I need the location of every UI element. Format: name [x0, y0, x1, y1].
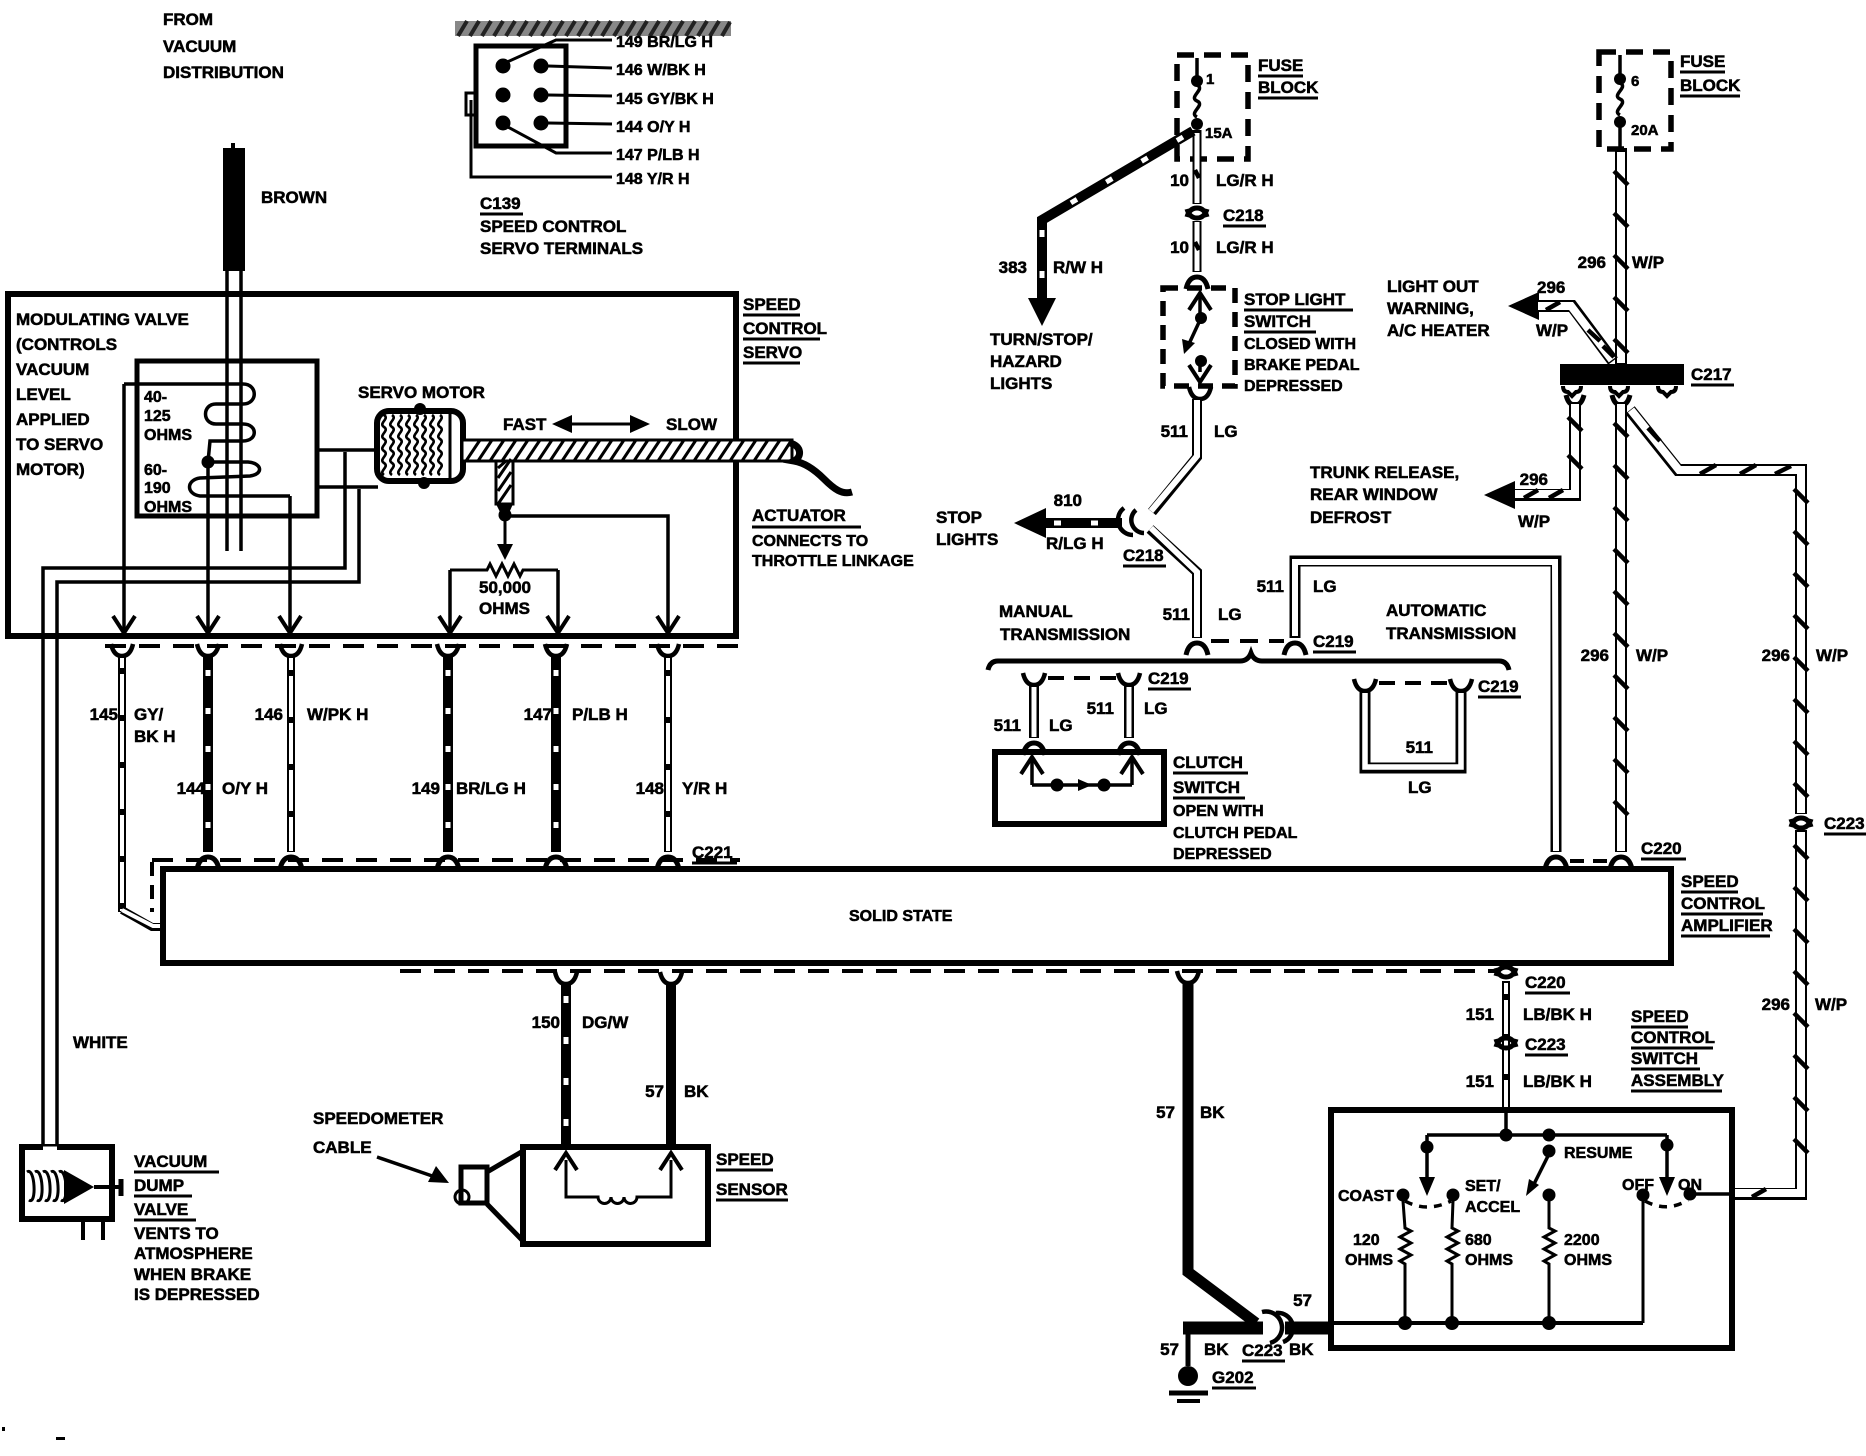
wire 511 LG (switch to C218)	[1151, 387, 1211, 512]
svg-text:SPEED: SPEED	[716, 1150, 774, 1169]
svg-text:R/W H: R/W H	[1053, 258, 1103, 277]
contact SET/ACCEL	[1447, 1189, 1460, 1202]
wire 296 W/P branch arrow (light out warning)	[1508, 292, 1614, 361]
svg-text:LG: LG	[1214, 422, 1238, 441]
switch assembly internal feed	[1427, 1110, 1667, 1142]
connector C139 hatched mounting bar	[455, 21, 731, 36]
svg-text:LG: LG	[1049, 716, 1073, 735]
svg-text:BK: BK	[1289, 1340, 1314, 1359]
svg-text:57: 57	[1160, 1340, 1179, 1359]
svg-text:296: 296	[1762, 995, 1790, 1014]
svg-text:LEVEL: LEVEL	[16, 385, 71, 404]
svg-text:LG: LG	[1313, 577, 1337, 596]
wire 146 W/PK H	[280, 644, 302, 869]
svg-text:296: 296	[1578, 253, 1606, 272]
svg-text:149: 149	[412, 779, 440, 798]
note: VENTS TO ATMOSPHERE WHEN BRAKE IS DEPRESSED	[134, 1224, 260, 1304]
svg-text:DISTRIBUTION: DISTRIBUTION	[163, 63, 284, 82]
svg-text:BK: BK	[1200, 1103, 1225, 1122]
svg-text:57: 57	[645, 1082, 664, 1101]
coast/set blade arm	[1419, 1135, 1435, 1196]
wire 57 BK (sensor)	[660, 972, 682, 1148]
wire 57 BK bus to C223	[1183, 1322, 1333, 1335]
svg-text:SERVO TERMINALS: SERVO TERMINALS	[480, 239, 643, 258]
svg-text:GY/: GY/	[134, 705, 164, 724]
svg-text:O/Y H: O/Y H	[222, 779, 268, 798]
actuator rod (hatched bar)	[462, 440, 792, 461]
arrow into C221 (wire 147)	[547, 616, 569, 633]
value label 50,000 OHMS	[479, 578, 531, 618]
svg-text:40-: 40-	[144, 389, 167, 406]
svg-text:FROM: FROM	[163, 10, 213, 29]
connector C139 pin 1	[496, 59, 511, 74]
svg-text:WARNING,: WARNING,	[1387, 299, 1474, 318]
label FAST / SLOW with arrows	[503, 415, 718, 434]
svg-text:APPLIED: APPLIED	[16, 410, 90, 429]
svg-text:C219: C219	[1478, 677, 1519, 696]
svg-text:511: 511	[1161, 422, 1188, 441]
on terminal wire	[1690, 1192, 1732, 1196]
svg-text:BK: BK	[684, 1082, 709, 1101]
svg-text:C223: C223	[1525, 1035, 1566, 1054]
svg-text:SWITCH: SWITCH	[1631, 1049, 1698, 1068]
wire 10 LG/R H (C218 to stop light switch)	[1186, 221, 1208, 289]
connector C219 dashed gap (automatic)	[1379, 681, 1448, 685]
wire 147 P/LB H	[545, 644, 567, 869]
svg-text:W/P: W/P	[1536, 321, 1568, 340]
contact OFF	[1637, 1189, 1650, 1202]
fuse block (15A) dashed box	[1177, 55, 1248, 159]
connector C218 (inline, upper)	[1187, 208, 1207, 218]
svg-text:A/C HEATER: A/C HEATER	[1387, 321, 1490, 340]
svg-text:R/LG H: R/LG H	[1046, 534, 1104, 553]
svg-text:57: 57	[1293, 1291, 1312, 1310]
svg-text:W/P: W/P	[1636, 646, 1668, 665]
svg-text:OHMS: OHMS	[479, 599, 530, 618]
svg-text:C218: C218	[1223, 206, 1264, 225]
svg-text:TRANSMISSION: TRANSMISSION	[1386, 624, 1516, 643]
speed sensor box	[523, 1147, 708, 1244]
connector C221 dashed line (bottom)	[152, 860, 740, 912]
wire 144 O/Y H	[197, 644, 219, 869]
label C139 SPEED CONTROL SERVO TERMINALS	[480, 194, 643, 258]
label FUSE BLOCK (left)	[1258, 56, 1319, 98]
svg-text:P/LB H: P/LB H	[572, 705, 628, 724]
wire 296 W/P (C223 to ON terminal)	[1733, 830, 1808, 1197]
automatic transmission loop wire 511 LG	[1354, 679, 1472, 768]
connector C220 dashed line (below amplifier)	[400, 969, 1496, 973]
svg-text:296: 296	[1520, 470, 1548, 489]
stop light switch dashed box	[1163, 288, 1235, 386]
speedometer cable cone	[455, 1151, 523, 1241]
svg-text:SERVO: SERVO	[743, 343, 802, 362]
svg-text:10: 10	[1170, 238, 1189, 257]
vacuum dump valve body	[22, 1147, 112, 1219]
ground G202	[1169, 1332, 1208, 1401]
modulating valve upper winding	[124, 384, 254, 462]
svg-text:144: 144	[177, 779, 206, 798]
svg-text:DUMP: DUMP	[134, 1176, 184, 1195]
svg-text:W/PK H: W/PK H	[307, 705, 368, 724]
svg-text:SWITCH: SWITCH	[1173, 778, 1240, 797]
wire 144 inside servo box	[206, 462, 210, 630]
svg-text:CONTROL: CONTROL	[743, 319, 827, 338]
servo motor body	[377, 411, 463, 481]
resistor 2200 OHMS	[1544, 1201, 1612, 1323]
svg-text:BROWN: BROWN	[261, 188, 327, 207]
vacuum hose from distribution (white tube into servo box)	[227, 271, 241, 551]
svg-text:C223: C223	[1242, 1341, 1283, 1360]
svg-text:STOP LIGHT: STOP LIGHT	[1244, 290, 1346, 309]
clutch switch contacts	[1021, 757, 1143, 792]
svg-text:LG/R H: LG/R H	[1216, 171, 1274, 190]
svg-text:151: 151	[1466, 1072, 1494, 1091]
transmission selector brace	[988, 653, 1509, 670]
svg-text:OHMS: OHMS	[1345, 1252, 1393, 1269]
stop light switch contacts and blade	[1182, 293, 1211, 382]
vacuum hose BROWN (black section)	[223, 143, 245, 271]
svg-text:TRANSMISSION: TRANSMISSION	[1000, 625, 1130, 644]
wire 146 inside servo box	[288, 496, 292, 630]
svg-text:LG: LG	[1144, 699, 1168, 718]
value label 40-125 OHMS	[144, 389, 192, 444]
note: AUTOMATIC TRANSMISSION	[1386, 601, 1516, 643]
svg-text:TO SERVO: TO SERVO	[16, 435, 103, 454]
blade travel arc (off-on)	[1645, 1200, 1688, 1207]
wire 149 BR/LG H pin lead	[505, 40, 612, 63]
blade travel arc (coast-set)	[1405, 1201, 1451, 1207]
svg-text:SLOW: SLOW	[666, 415, 718, 434]
note: TRUNK RELEASE, REAR WINDOW DEFROST	[1310, 463, 1459, 527]
svg-text:C223: C223	[1824, 814, 1865, 833]
svg-text:MODULATING VALVE: MODULATING VALVE	[16, 310, 189, 329]
svg-text:BLOCK: BLOCK	[1258, 78, 1319, 97]
svg-text:SERVO MOTOR: SERVO MOTOR	[358, 383, 485, 402]
fuse block (20A) dashed box	[1599, 52, 1671, 149]
svg-text:OHMS: OHMS	[1465, 1252, 1513, 1269]
note: FROM VACUUM DISTRIBUTION	[163, 10, 284, 82]
svg-text:CONTROL: CONTROL	[1681, 894, 1765, 913]
svg-text:THROTTLE LINKAGE: THROTTLE LINKAGE	[752, 553, 914, 570]
note: STOP LIGHTS	[936, 508, 998, 549]
svg-text:ON: ON	[1678, 1177, 1702, 1194]
svg-text:TURN/STOP/: TURN/STOP/	[990, 330, 1093, 349]
off/on blade arm	[1659, 1135, 1675, 1196]
svg-text:ATMOSPHERE: ATMOSPHERE	[134, 1244, 253, 1263]
svg-text:147 P/LB H: 147 P/LB H	[616, 147, 700, 164]
arrow into C221 (wire 144)	[197, 616, 219, 633]
svg-text:WHITE: WHITE	[73, 1033, 128, 1052]
arrow into C221 (wire 146)	[279, 616, 301, 633]
svg-text:296: 296	[1537, 278, 1565, 297]
svg-text:SOLID STATE: SOLID STATE	[849, 908, 953, 925]
off return wire	[1642, 1201, 1645, 1323]
svg-text:RESUME: RESUME	[1564, 1145, 1633, 1162]
svg-text:FUSE: FUSE	[1680, 52, 1725, 71]
svg-text:C217: C217	[1691, 365, 1732, 384]
arrow into C221 (wire 148)	[657, 616, 679, 633]
speed control amplifier box	[163, 869, 1671, 963]
wire 150 DG/W	[555, 972, 577, 1148]
svg-text:VACUUM: VACUUM	[163, 37, 236, 56]
label SPEEDOMETER CABLE with arrow	[313, 1109, 449, 1183]
svg-text:125: 125	[144, 408, 171, 425]
svg-text:15A: 15A	[1205, 125, 1233, 142]
wire 148 Y/R H pin lead	[471, 100, 612, 177]
svg-text:STOP: STOP	[936, 508, 982, 527]
svg-text:OPEN WITH: OPEN WITH	[1173, 803, 1264, 820]
wire 144 O/Y H pin lead	[548, 123, 612, 124]
svg-text:VENTS TO: VENTS TO	[134, 1224, 219, 1243]
speed control servo box	[8, 294, 736, 636]
svg-text:1: 1	[1206, 71, 1214, 88]
clutch switch stub wire right (511 LG)	[1118, 673, 1140, 755]
svg-text:SET/: SET/	[1465, 1178, 1501, 1195]
speed control switch assembly box	[1331, 1110, 1732, 1348]
svg-text:VALVE: VALVE	[134, 1200, 188, 1219]
svg-text:OFF: OFF	[1622, 1177, 1654, 1194]
svg-text:W/P: W/P	[1815, 995, 1847, 1014]
arrow into C221 (wire 149)	[439, 616, 461, 633]
svg-text:FUSE: FUSE	[1258, 56, 1303, 75]
svg-text:LB/BK H: LB/BK H	[1523, 1072, 1592, 1091]
svg-text:DEPRESSED: DEPRESSED	[1173, 846, 1272, 863]
svg-text:511: 511	[1163, 605, 1190, 624]
connector C219 dashed gap	[1211, 639, 1284, 643]
svg-text:FAST: FAST	[503, 415, 547, 434]
wire 145 GY/BK H pin lead	[548, 95, 612, 96]
wire from valve box to servo motor (upper)	[319, 448, 378, 452]
svg-text:10: 10	[1170, 171, 1189, 190]
svg-text:296: 296	[1762, 646, 1790, 665]
svg-text:COAST: COAST	[1338, 1188, 1394, 1205]
svg-text:VACUUM: VACUUM	[134, 1152, 207, 1171]
wire 10 LG/R H (fuse to C218)	[1195, 130, 1199, 204]
servo motor terminal dot bottom	[418, 477, 430, 489]
svg-text:50,000: 50,000	[479, 578, 531, 597]
svg-text:SPEED: SPEED	[1631, 1007, 1689, 1026]
connector C220 dashed gap (right, above amplifier)	[1570, 859, 1612, 863]
clutch switch box	[995, 752, 1164, 824]
svg-text:MOTOR): MOTOR)	[16, 460, 85, 479]
svg-text:(CONTROLS: (CONTROLS	[16, 335, 117, 354]
arrow into C221 (wire 145)	[113, 616, 135, 633]
svg-text:MANUAL: MANUAL	[999, 602, 1073, 621]
svg-text:6: 6	[1631, 73, 1639, 90]
svg-text:147: 147	[524, 705, 552, 724]
label STOP LIGHT SWITCH CLOSED WITH BRAKE PEDAL DEPRESSED	[1244, 290, 1360, 395]
wire 57 BK (amplifier to ground)	[1177, 971, 1256, 1323]
note: LIGHT OUT WARNING, A/C HEATER	[1387, 277, 1490, 340]
svg-text:DEFROST: DEFROST	[1310, 508, 1392, 527]
svg-text:SENSOR: SENSOR	[716, 1180, 788, 1199]
svg-text:60-: 60-	[144, 462, 167, 479]
label C221	[692, 843, 737, 863]
connector C139 pin 5	[496, 116, 511, 131]
connector C223 (inline on 151)	[1496, 1038, 1516, 1048]
svg-text:511: 511	[1087, 699, 1114, 718]
contact COAST	[1397, 1189, 1410, 1202]
svg-text:AUTOMATIC: AUTOMATIC	[1386, 601, 1486, 620]
connector C218 (inline, lower)	[1118, 508, 1144, 535]
wire 145 inside servo box	[122, 384, 126, 630]
svg-text:C221: C221	[692, 843, 733, 862]
svg-text:511: 511	[994, 716, 1021, 735]
svg-text:BLOCK: BLOCK	[1680, 76, 1741, 95]
svg-text:C220: C220	[1641, 839, 1682, 858]
svg-text:LG: LG	[1408, 778, 1432, 797]
svg-text:CONTROL: CONTROL	[1631, 1028, 1715, 1047]
junction dot (wiper)	[499, 509, 512, 522]
switch assembly ground bus	[1334, 1316, 1643, 1330]
svg-text:Y/R H: Y/R H	[682, 779, 727, 798]
svg-text:W/P: W/P	[1518, 512, 1550, 531]
wire 146 W/BK H pin lead	[548, 66, 612, 68]
svg-text:C219: C219	[1313, 632, 1354, 651]
label SPEED SENSOR	[716, 1150, 788, 1200]
svg-text:BRAKE PEDAL: BRAKE PEDAL	[1244, 357, 1360, 374]
wire from valve box to servo motor (lower)	[319, 485, 378, 489]
wire 147 P/LB H pin lead	[506, 126, 612, 153]
svg-text:WHEN BRAKE: WHEN BRAKE	[134, 1265, 251, 1284]
connector C139 pin 2	[534, 59, 549, 74]
svg-text:CONNECTS TO: CONNECTS TO	[752, 533, 868, 550]
resistor 120 OHMS	[1345, 1201, 1411, 1323]
svg-text:W/P: W/P	[1816, 646, 1848, 665]
connector C223 (inline on 57)	[1262, 1311, 1293, 1343]
wire 147 inside servo box	[556, 570, 560, 630]
svg-text:146 W/BK H: 146 W/BK H	[616, 62, 706, 79]
wire 148 inside servo box from wiper	[505, 516, 668, 630]
wire 511 LG (C218 to C219)	[1150, 528, 1208, 655]
svg-text:145 GY/BK H: 145 GY/BK H	[616, 91, 714, 108]
svg-text:LG/R H: LG/R H	[1216, 238, 1274, 257]
note: TURN/STOP/ HAZARD LIGHTS	[990, 330, 1093, 393]
svg-text:120: 120	[1353, 1232, 1380, 1249]
wiper arrow to 50000 ohms	[497, 515, 513, 560]
svg-text:OHMS: OHMS	[144, 499, 192, 516]
svg-text:OHMS: OHMS	[1564, 1252, 1612, 1269]
svg-text:810: 810	[1054, 491, 1082, 510]
svg-text:ACCEL: ACCEL	[1465, 1199, 1520, 1216]
svg-text:BR/LG H: BR/LG H	[456, 779, 526, 798]
svg-text:AMPLIFIER: AMPLIFIER	[1681, 916, 1773, 935]
label ACTUATOR CONNECTS TO THROTTLE LINKAGE	[752, 506, 914, 570]
svg-text:REAR WINDOW: REAR WINDOW	[1310, 485, 1438, 504]
svg-text:383: 383	[999, 258, 1027, 277]
svg-text:ASSEMBLY: ASSEMBLY	[1631, 1071, 1725, 1090]
svg-text:IS DEPRESSED: IS DEPRESSED	[134, 1285, 260, 1304]
svg-text:SPEED CONTROL: SPEED CONTROL	[480, 217, 626, 236]
svg-text:G202: G202	[1212, 1368, 1254, 1387]
label VACUUM DUMP VALVE	[134, 1152, 219, 1220]
note: MODULATING VALVE description	[16, 310, 189, 479]
svg-text:CLOSED WITH: CLOSED WITH	[1244, 336, 1356, 353]
wire 148 Y/R H	[657, 644, 679, 869]
svg-text:SWITCH: SWITCH	[1244, 312, 1311, 331]
svg-text:BK H: BK H	[134, 727, 176, 746]
speck noise bottom left	[2, 1427, 65, 1440]
modulating valve lower winding	[190, 462, 291, 496]
dump valve vent port	[83, 1219, 103, 1240]
svg-text:SPEEDOMETER: SPEEDOMETER	[313, 1109, 443, 1128]
label SPEED CONTROL SERVO	[743, 295, 827, 363]
connector C223 (inline on 296)	[1791, 818, 1811, 828]
svg-text:511: 511	[1257, 577, 1284, 596]
svg-text:DG/W: DG/W	[582, 1013, 629, 1032]
connector C139 pin 3	[496, 88, 511, 103]
wire 149 inside servo box	[448, 570, 452, 630]
svg-text:LB/BK H: LB/BK H	[1523, 1005, 1592, 1024]
wire 383 R/W H (to turn/stop/hazard)	[1028, 131, 1193, 326]
svg-text:149 BR/LG H: 149 BR/LG H	[616, 34, 713, 51]
wire 296 W/P (C217 middle to C220)	[1610, 395, 1632, 869]
svg-text:148: 148	[636, 779, 664, 798]
connector C139 pin 4	[534, 88, 549, 103]
svg-text:BK: BK	[1204, 1340, 1229, 1359]
svg-text:145: 145	[90, 705, 118, 724]
svg-text:296: 296	[1581, 646, 1609, 665]
actuator cable to throttle (scribble)	[790, 443, 852, 493]
connector C221 dashed line (top)	[105, 644, 740, 648]
arrow inside sensor (right terminal)	[660, 1153, 682, 1170]
svg-text:680: 680	[1465, 1232, 1492, 1249]
fuse 1 / 15A element	[1191, 58, 1233, 142]
wire 151 LB/BK H (amplifier to switch assembly)	[1496, 967, 1516, 1110]
svg-text:C218: C218	[1123, 546, 1164, 565]
contact ON	[1684, 1188, 1697, 1201]
svg-text:ACTUATOR: ACTUATOR	[752, 506, 846, 525]
svg-text:190: 190	[144, 480, 171, 497]
svg-text:2200: 2200	[1564, 1232, 1600, 1249]
label SPEED CONTROL AMPLIFIER	[1681, 872, 1773, 936]
resistor 680 OHMS	[1447, 1201, 1513, 1323]
dump valve plunger	[64, 1170, 121, 1204]
wire 149 BR/LG H	[437, 644, 459, 869]
wire 511 LG (C219 up and over to C220)	[1284, 561, 1567, 869]
clutch switch stub wire left (511 LG)	[1023, 673, 1045, 755]
svg-text:OHMS: OHMS	[144, 427, 192, 444]
svg-text:DEPRESSED: DEPRESSED	[1244, 378, 1343, 395]
svg-text:146: 146	[255, 705, 283, 724]
wire 296 W/P (branch to speed control switch)	[1630, 410, 1808, 814]
sensor pickup coil	[566, 1160, 671, 1204]
label FUSE BLOCK (right)	[1680, 52, 1741, 96]
svg-text:CABLE: CABLE	[313, 1138, 372, 1157]
label SPEED CONTROL SWITCH ASSEMBLY	[1631, 1007, 1725, 1091]
contact 2200 top	[1543, 1189, 1556, 1202]
svg-text:CLUTCH PEDAL: CLUTCH PEDAL	[1173, 825, 1298, 842]
connector C219 dashed gap (clutch)	[1048, 676, 1116, 680]
wire 145 GY/BK H	[111, 644, 164, 927]
svg-text:W/P: W/P	[1632, 253, 1664, 272]
svg-text:LIGHTS: LIGHTS	[990, 374, 1052, 393]
svg-text:20A: 20A	[1631, 122, 1659, 139]
svg-text:SPEED: SPEED	[743, 295, 801, 314]
modulating valve resistor box	[137, 361, 317, 516]
svg-text:C220: C220	[1525, 973, 1566, 992]
arrow inside sensor (left terminal)	[555, 1153, 577, 1170]
svg-text:TRUNK RELEASE,: TRUNK RELEASE,	[1310, 463, 1459, 482]
svg-text:144 O/Y H: 144 O/Y H	[616, 119, 690, 136]
resume blade arm	[1526, 1145, 1633, 1197]
vacuum line to dump valve (white tube through box)	[43, 452, 359, 1147]
servo motor terminal dot top	[414, 403, 426, 415]
svg-text:LIGHT OUT: LIGHT OUT	[1387, 277, 1479, 296]
svg-text:511: 511	[1406, 738, 1433, 757]
svg-text:CLUTCH: CLUTCH	[1173, 753, 1243, 772]
wire 296 W/P (C217 to trunk release arrow)	[1484, 395, 1584, 509]
